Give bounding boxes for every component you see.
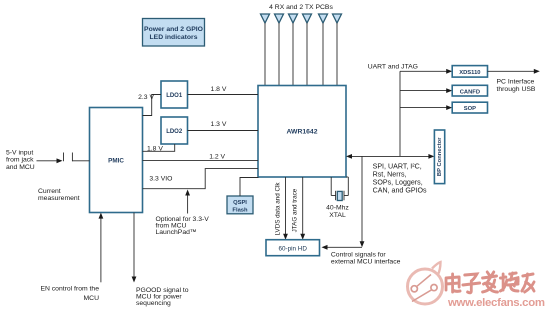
svg-text:external MCU interface: external MCU interface <box>331 259 401 266</box>
antenna ANT2 <box>275 14 284 86</box>
svg-text:CAN, and GPIOs: CAN, and GPIOs <box>373 187 427 195</box>
svg-text:CANFD: CANFD <box>460 89 480 95</box>
antenna ANT1 <box>261 14 270 86</box>
svg-text:Power and 2 GPIO: Power and 2 GPIO <box>144 26 203 33</box>
wire 3.3 VIO PMIC to AWR1642 <box>143 169 259 189</box>
svg-text:2.3 V: 2.3 V <box>138 94 154 101</box>
svg-text:Rst, Nerrs,: Rst, Nerrs, <box>373 170 407 178</box>
antenna ANT5 <box>319 14 328 86</box>
svg-text:www.elecfans.com: www.elecfans.com <box>447 297 545 309</box>
label PC interface <box>497 78 536 93</box>
svg-text:40-Mhz: 40-Mhz <box>326 205 349 212</box>
svg-text:and MCU: and MCU <box>6 164 35 171</box>
AWR1642 block <box>258 86 346 178</box>
XDS110 block <box>452 66 487 78</box>
QSPI flash block <box>227 196 253 214</box>
5V input label <box>6 150 35 171</box>
arrow LVDS data and Clk <box>283 177 288 240</box>
svg-text:1.3 V: 1.3 V <box>211 121 227 128</box>
svg-text:LaunchPad™: LaunchPad™ <box>156 229 197 236</box>
svg-text:PMIC: PMIC <box>108 157 124 164</box>
svg-text:EN control from the: EN control from the <box>40 285 99 292</box>
svg-text:AWR1642: AWR1642 <box>287 129 318 136</box>
wire 5V input with arrow <box>37 158 63 163</box>
svg-text:1.8 V: 1.8 V <box>211 86 227 93</box>
LDO1 block <box>161 81 188 108</box>
wire 1.3V LDO2 to AWR1642 <box>188 130 259 132</box>
svg-text:LDO1: LDO1 <box>166 93 183 99</box>
svg-text:3.3 VIO: 3.3 VIO <box>149 176 172 183</box>
svg-text:XTAL: XTAL <box>329 212 346 219</box>
label PGOOD <box>136 287 189 307</box>
SOP block <box>452 102 487 113</box>
svg-text:UART and JTAG: UART and JTAG <box>368 64 418 71</box>
bus AWR1642 to BP connector <box>346 154 434 159</box>
svg-text:1.2 V: 1.2 V <box>209 154 225 161</box>
svg-text:MCU: MCU <box>84 295 100 302</box>
wire control signals horizontal with arrow into 60-pin HD <box>322 245 363 250</box>
wire 1.8V PMIC to LDO2 <box>143 144 175 151</box>
wire UART/JTAG trunk <box>399 71 401 156</box>
label optional 3.3-V <box>156 216 210 236</box>
svg-text:through USB: through USB <box>497 86 536 93</box>
label EN control <box>40 285 99 302</box>
svg-text:JTAG and trace: JTAG and trace <box>292 188 299 232</box>
wire to SOP <box>400 105 452 110</box>
svg-text:Flash: Flash <box>232 208 248 214</box>
label SPI UART list <box>373 162 427 194</box>
svg-text:BP Connector: BP Connector <box>437 137 443 176</box>
wire to CANFD <box>400 88 452 93</box>
watermark logo circle <box>408 262 443 304</box>
svg-text:60-pin HD: 60-pin HD <box>279 245 308 252</box>
LDO2 block <box>161 117 188 144</box>
svg-text:measurement: measurement <box>38 195 80 202</box>
svg-text:XDS110: XDS110 <box>459 70 480 76</box>
current measurement jumper posts <box>64 153 90 162</box>
wire to XDS110 <box>400 69 452 74</box>
BP connector block <box>434 130 444 184</box>
wire 2.3V PMIC to LDO1 <box>143 95 162 116</box>
arrow PGOOD from PMIC <box>132 213 137 283</box>
svg-text:sequencing: sequencing <box>136 300 171 307</box>
svg-text:Control signals for: Control signals for <box>331 252 387 259</box>
crystal XTAL circuit <box>331 177 348 201</box>
svg-text:LVDS data and Clk: LVDS data and Clk <box>274 182 281 236</box>
arrow EN control into PMIC <box>99 213 104 283</box>
antenna ANT3 <box>289 14 298 86</box>
wire 1.8V LDO1 to AWR1642 <box>188 94 259 96</box>
svg-text:LDO2: LDO2 <box>166 129 183 135</box>
CANFD block <box>452 85 487 96</box>
svg-text:SPI, UART, I²C,: SPI, UART, I²C, <box>373 162 422 170</box>
wire 1.2V PMIC to AWR1642 <box>143 160 259 162</box>
antenna ANT4 <box>303 14 312 86</box>
watermark chinese text 电子发烧友 (stroke approximation) <box>446 272 534 293</box>
svg-text:Current: Current <box>38 188 61 195</box>
svg-text:SOP: SOP <box>464 106 476 112</box>
LED indicator block <box>143 19 205 47</box>
label 40-Mhz XTAL <box>326 205 349 219</box>
svg-text:LED indicators: LED indicators <box>150 34 198 41</box>
label control signals <box>331 252 401 266</box>
wire XDS110 to USB arrow <box>488 69 540 74</box>
PMIC block <box>90 108 143 213</box>
svg-text:from jack: from jack <box>6 157 34 164</box>
svg-text:5-V input: 5-V input <box>6 150 33 157</box>
arrow optional 3.3V into VIO wire <box>185 190 190 214</box>
wire control signals vertical <box>360 156 365 247</box>
svg-text:QSPI: QSPI <box>233 200 247 206</box>
wire QSPI to AWR1642 <box>240 178 259 197</box>
svg-text:1.8 V: 1.8 V <box>147 145 163 152</box>
arrow JTAG and trace <box>300 177 305 240</box>
current measurement label <box>38 188 80 202</box>
svg-text:4 RX and 2 TX PCBs: 4 RX and 2 TX PCBs <box>269 4 333 11</box>
svg-text:PC Interface: PC Interface <box>497 78 535 85</box>
svg-text:SOPs, Loggers,: SOPs, Loggers, <box>373 179 423 187</box>
60-pin HD block <box>266 240 320 256</box>
antenna ANT6 <box>333 14 342 86</box>
